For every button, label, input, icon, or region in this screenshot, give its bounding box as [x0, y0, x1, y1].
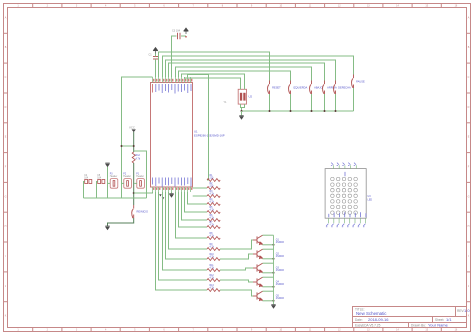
wire C5 to rail: [97, 182, 98, 199]
pushbutton REINICIO: [132, 205, 134, 218]
U1 bottom pin numbers: [154, 188, 192, 190]
ground mini GND4a under U1: [159, 194, 162, 196]
wire Q5 emitter to rail: [263, 290, 274, 292]
svg-text:Header: Header: [123, 175, 131, 178]
wire U2 pin2 stub: [244, 86, 246, 89]
wire button to ground rail: [335, 94, 337, 111]
wire U1 to R10: [166, 192, 208, 259]
wire U2 pin1 stub: [240, 86, 242, 89]
pin dot: [185, 36, 187, 38]
resistor R2: [207, 187, 220, 190]
svg-text:IZQUIERDA: IZQUIERDA: [293, 86, 307, 90]
ground GND1: [239, 116, 243, 120]
pushbutton SW IZQUIERDA: [288, 81, 290, 95]
wire U1 to R6: [182, 192, 208, 220]
wire U1 to R9: [169, 192, 208, 249]
svg-text:2N3906: 2N3906: [276, 270, 285, 272]
svg-text:New Schematic: New Schematic: [356, 311, 387, 316]
wire Q1 collector to rail: [263, 244, 274, 246]
U1 top pin names: [156, 84, 191, 94]
wire Q3 emitter to rail: [263, 262, 274, 264]
LED matrix dots: [331, 177, 358, 214]
pushbutton SW ABAJO: [309, 81, 311, 95]
wire to R2: [193, 187, 207, 189]
title block: [353, 307, 467, 328]
wire Q1 emitter to rail: [263, 234, 274, 236]
wire R10 to Q2: [220, 254, 253, 259]
junction: [121, 145, 123, 147]
wire Q3 collector to rail: [263, 272, 274, 274]
LED matrix U3 body: [325, 169, 366, 219]
wire to R3: [193, 195, 207, 197]
ground rail: [242, 110, 354, 112]
junction: [269, 110, 271, 112]
resistor R9: [207, 248, 220, 251]
wire U2 to rail: [241, 108, 243, 112]
svg-text:Sheet:: Sheet:: [435, 318, 444, 322]
wire VCC branch left: [122, 145, 134, 147]
wire U1 to R5: [185, 192, 208, 212]
wire R11 to Q3: [220, 268, 253, 270]
svg-text:1/1: 1/1: [446, 317, 452, 322]
wire U1 to R4: [188, 192, 208, 204]
wire U2 bottom join: [241, 104, 245, 107]
svg-text:VCC: VCC: [129, 126, 135, 130]
wire PAUSE to ground rail: [353, 88, 355, 111]
wire P2 stub: [121, 182, 124, 184]
svg-text:ESP8266-12E/SMD-16P: ESP8266-12E/SMD-16P: [194, 134, 225, 138]
ground mini GND4b under U1: [162, 197, 165, 199]
wire Q5 collector to rail: [263, 300, 274, 302]
resistor R13: [207, 289, 220, 292]
junction: [290, 110, 292, 112]
wire C1 to VCC: [155, 54, 157, 57]
svg-text:C3 104: C3 104: [172, 30, 181, 33]
wire P1 stub: [134, 182, 137, 184]
wire to C3: [172, 36, 177, 77]
svg-text:H: H: [5, 225, 7, 228]
wire rail to ground: [241, 111, 243, 116]
capacitor C5: [98, 180, 105, 184]
svg-text:Header: Header: [136, 175, 144, 178]
wire Q2 collector to rail: [263, 258, 274, 260]
wire U1 to R7: [179, 192, 208, 227]
transistor Q5: [253, 291, 263, 301]
junction: [311, 110, 313, 112]
svg-text:Header: Header: [110, 175, 118, 178]
transistor rail wire: [273, 235, 275, 304]
pushbutton SW ARRIBA: [322, 81, 324, 95]
svg-text:2018-09-16: 2018-09-16: [368, 317, 389, 322]
resistor R12 vertical: [132, 152, 135, 163]
resistor R7: [207, 226, 220, 229]
junction: [324, 110, 326, 112]
junction: [335, 110, 337, 112]
svg-text:C: C: [5, 76, 7, 79]
junction: [273, 286, 275, 288]
pushbutton SW DERECHA: [333, 81, 335, 95]
wire U1 pin1 to left rail: [122, 77, 153, 198]
svg-text:H: H: [468, 225, 470, 228]
wire Q4 collector to rail: [263, 286, 274, 288]
wire VCC to header rail: [134, 151, 147, 198]
resistor R1: [207, 179, 220, 182]
ground GND3: [105, 163, 109, 167]
ground GND6: [271, 305, 275, 309]
wire U1 to R8: [176, 192, 208, 238]
junction: [133, 192, 135, 194]
IC U1 ESP8266 module body: [151, 83, 193, 188]
wire R9 to Q1: [220, 240, 253, 249]
wire button to ground rail: [324, 94, 326, 111]
junction: [273, 272, 275, 274]
wire GPIO to PAUSE button: [163, 56, 354, 77]
svg-text:Drawn By:: Drawn By:: [411, 324, 426, 328]
svg-text:G: G: [468, 195, 470, 198]
U3 bottom pins: [329, 218, 366, 223]
svg-text:RESET: RESET: [272, 86, 281, 90]
resistor R10: [207, 258, 220, 261]
wire U1 to R11: [163, 192, 208, 270]
wire button to ground rail: [311, 94, 313, 111]
power flag VCC left: [153, 48, 158, 54]
svg-text:D: D: [5, 106, 7, 109]
wire reset node to U1 pin: [134, 192, 153, 193]
wire P3 stub: [108, 182, 111, 184]
resistor R5: [207, 211, 220, 214]
wire C3 to VCC: [181, 35, 186, 37]
svg-text:EasyEDA V5.7.25: EasyEDA V5.7.25: [355, 324, 381, 328]
wire C1 to U1: [155, 59, 157, 77]
wire REINICIO to ground: [108, 218, 134, 226]
junction: [273, 244, 275, 246]
resistor R4: [207, 203, 220, 206]
resistor R11: [207, 269, 220, 272]
header P2: [124, 179, 132, 189]
wire GPIO to RESET button: [159, 52, 270, 81]
junction: [133, 145, 135, 147]
capacitor C4: [85, 180, 92, 184]
svg-text:4.7k: 4.7k: [136, 158, 141, 161]
wire R12 to REINICIO: [133, 163, 135, 205]
wire GND3 to header rail: [107, 167, 109, 198]
transistor Q4: [253, 277, 263, 287]
svg-text:2N3906: 2N3906: [276, 284, 285, 286]
svg-text:2N3906: 2N3906: [276, 256, 285, 258]
svg-text:2N3906: 2N3906: [276, 298, 285, 300]
wire GPIO to ARRIBA button: [169, 63, 325, 81]
wire U1 to R13: [156, 192, 208, 290]
U3 top pin name: [344, 172, 346, 176]
pushbutton SW PAUSE: [351, 75, 353, 89]
U1 top pin stubs: [153, 77, 191, 83]
svg-text:PAUSE: PAUSE: [356, 80, 365, 84]
resistor R8: [207, 237, 220, 240]
wire GPIO to IZQUIERDA button: [179, 71, 291, 81]
junction: [273, 300, 275, 302]
header P1: [137, 179, 145, 189]
U1 bottom pin stubs: [153, 187, 191, 192]
svg-text:1.0: 1.0: [464, 308, 470, 313]
header P3: [110, 179, 118, 189]
svg-text:G: G: [5, 195, 7, 198]
wire button to ground rail: [290, 94, 292, 111]
svg-text:ARRIBA: ARRIBA: [327, 86, 337, 90]
U1 bottom pin names: [153, 178, 191, 188]
junction: [273, 258, 275, 260]
junction: [241, 110, 243, 112]
U1 top pin name (pin 1, red): [152, 84, 154, 93]
resistor R3: [207, 195, 220, 198]
svg-text:D: D: [468, 106, 470, 109]
wire U1 to R12: [159, 192, 208, 280]
svg-text:Date:: Date:: [355, 318, 363, 322]
svg-text:Your Name: Your Name: [428, 323, 449, 328]
wire GPIO to DERECHA button: [166, 60, 336, 81]
pushbutton SW RESET: [267, 81, 269, 95]
wire U1 top pin to R1: [188, 75, 209, 181]
resistor R12: [207, 279, 220, 282]
U1 top pin numbers: [154, 79, 192, 82]
wire R12 to Q4: [220, 280, 253, 282]
ground GND2: [105, 226, 109, 230]
transistor Q2: [253, 249, 263, 259]
power flag VCC top: [184, 28, 189, 34]
capacitor C1 left: [153, 57, 158, 60]
svg-text:ABAJO: ABAJO: [314, 86, 323, 90]
U3 top pins: [334, 165, 357, 168]
wire button to ground rail: [269, 94, 271, 111]
transistor Q1: [253, 235, 263, 245]
header rail wire: [84, 197, 147, 199]
crystal U2: [238, 89, 246, 104]
svg-text:REINICIO: REINICIO: [137, 210, 149, 214]
wire Q2 emitter to rail: [263, 248, 274, 250]
svg-text:U2: U2: [249, 95, 253, 99]
wire to U2 pin 1: [185, 77, 241, 86]
svg-text:LED: LED: [368, 198, 373, 201]
wire C4 to rail: [84, 182, 85, 199]
wire R13 to Q5: [220, 290, 253, 296]
wire U1 pin to GND5: [171, 192, 173, 194]
svg-text:C: C: [468, 76, 470, 79]
wire Q4 emitter to rail: [263, 276, 274, 278]
wire VCC to R12: [133, 132, 135, 152]
transistor Q3: [253, 263, 263, 273]
ground GND5: [169, 194, 173, 198]
wire GPIO to ABAJO button: [176, 67, 312, 81]
resistor R6: [207, 219, 220, 222]
U3 bottom pin names: [329, 212, 366, 217]
svg-text:DERECHA: DERECHA: [338, 86, 351, 90]
wire to U2 pin 2: [182, 74, 245, 86]
svg-text:2N3906: 2N3906: [276, 242, 285, 244]
